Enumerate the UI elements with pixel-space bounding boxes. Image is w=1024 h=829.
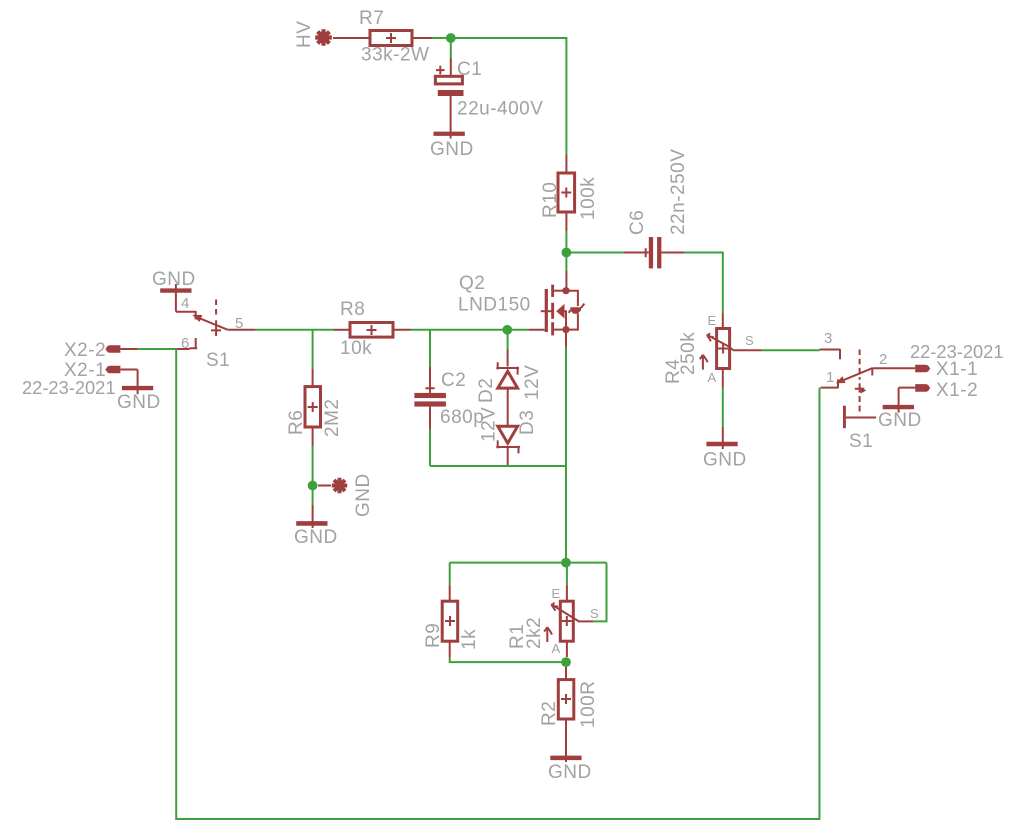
svg-text:S1: S1 [206, 350, 230, 371]
connector X1-1 [915, 359, 978, 380]
wire S1 to R8 [256, 329, 334, 331]
wire R10 to node [565, 212, 567, 231]
ground GND (R2) [548, 719, 592, 783]
svg-text:R8: R8 [340, 299, 365, 320]
ground GND (R4) [703, 427, 747, 471]
wire to R10 [565, 155, 567, 173]
junction dot [446, 33, 456, 43]
diode D3 [479, 407, 539, 454]
svg-text:22n-250V: 22n-250V [668, 149, 689, 235]
resistor R2 [539, 680, 599, 728]
wire C6 to R4 [661, 252, 684, 254]
svg-text:GND: GND [430, 139, 474, 160]
resistor R10 [540, 173, 599, 220]
svg-text:2k2: 2k2 [524, 617, 545, 649]
wire loop top [450, 562, 607, 564]
wire R4 S to S1 pin3 [733, 349, 761, 351]
connector X2-2 [64, 340, 138, 361]
supply GND star [318, 473, 374, 517]
wire R8 left pin [334, 329, 350, 331]
wire drain node down to Q2 [565, 253, 567, 272]
svg-text:1k: 1k [459, 629, 480, 650]
svg-text:HV: HV [294, 21, 315, 48]
switch S1 (left) [176, 295, 256, 371]
svg-text:22-23-2021: 22-23-2021 [910, 341, 1004, 362]
capacitor C2 [414, 370, 484, 428]
svg-text:22u-400V: 22u-400V [457, 99, 543, 120]
wire X2-2 to S1 [138, 348, 177, 350]
svg-text:R2: R2 [539, 701, 560, 726]
svg-text:33k-2W: 33k-2W [361, 45, 429, 66]
ground GND (C1) [430, 132, 474, 160]
wire loop left to R9 [449, 563, 451, 586]
junction dot R1/R9/R2 [561, 657, 571, 667]
wire left rail [176, 349, 819, 819]
svg-text:250k: 250k [678, 332, 699, 375]
junction dot R6/star [308, 481, 318, 491]
svg-text:X1-1: X1-1 [936, 359, 978, 380]
svg-text:2M2: 2M2 [322, 399, 343, 437]
ground GND (R6) [294, 505, 338, 548]
svg-text:22-23-2021: 22-23-2021 [22, 377, 116, 398]
wire zener/C2 rail [430, 465, 566, 467]
wire loop right (wiper S) [593, 563, 607, 622]
svg-text:100k: 100k [578, 177, 599, 220]
svg-text:12V: 12V [479, 407, 500, 442]
svg-text:GND: GND [152, 269, 196, 290]
capacitor C1 [435, 59, 543, 139]
svg-text:2: 2 [879, 351, 887, 368]
wire D3 to rail [507, 447, 509, 466]
wire source line down [565, 466, 567, 563]
junction dot gate/D2 [502, 325, 512, 335]
wire to R4 E [722, 313, 724, 329]
ground GND (left S1 pin4) [152, 269, 196, 312]
diode D2 [476, 362, 543, 403]
svg-text:10k: 10k [340, 338, 372, 359]
wire node to R2 [565, 667, 567, 680]
svg-text:A: A [708, 370, 717, 385]
wire node to C6 [566, 252, 624, 254]
svg-text:S: S [745, 333, 754, 348]
svg-text:E: E [552, 586, 561, 601]
ground GND (S1 frame, rotated) [843, 406, 876, 429]
svg-text:S: S [590, 606, 599, 621]
gate wire from R8 [528, 329, 544, 331]
svg-text:GND: GND [548, 762, 592, 783]
svg-text:12V: 12V [522, 365, 543, 400]
svg-text:X2-2: X2-2 [64, 340, 106, 361]
wire C2 branch [429, 330, 431, 367]
wire R7 to node [412, 37, 432, 39]
wire node down to C1 [450, 38, 452, 58]
wire R6 to GND node [312, 427, 314, 446]
transistor Q2 [458, 273, 584, 335]
svg-text:A: A [552, 641, 561, 656]
ground GND (X1-2) [878, 388, 922, 431]
connector X2-1 [64, 360, 138, 381]
svg-text:GND: GND [117, 392, 161, 413]
potentiometer R1 [507, 586, 599, 656]
wire HV to R7 [333, 37, 370, 39]
wire D2 to D3 [507, 390, 509, 427]
wire node to R10 corner [432, 38, 566, 155]
svg-text:3: 3 [824, 330, 832, 347]
capacitor C6 [627, 149, 689, 269]
svg-text:R7: R7 [359, 8, 384, 29]
wire C2 to rail [429, 407, 431, 429]
svg-text:GND: GND [878, 410, 922, 431]
svg-text:R6: R6 [286, 410, 307, 435]
svg-text:4: 4 [181, 295, 189, 312]
svg-text:Q2: Q2 [459, 273, 485, 294]
svg-text:R10: R10 [540, 182, 561, 218]
svg-text:X1-2: X1-2 [936, 380, 978, 401]
svg-text:1: 1 [826, 369, 834, 386]
connector X1-2 [899, 380, 979, 401]
wire R6 branch [312, 330, 314, 369]
wire R1 A to node [566, 641, 568, 657]
svg-text:C2: C2 [441, 370, 466, 391]
junction dot [562, 248, 572, 258]
svg-text:D2: D2 [476, 378, 497, 403]
wire E to R1 [566, 567, 568, 585]
svg-text:GND: GND [703, 450, 747, 471]
wire R8 to gate [393, 329, 411, 331]
resistor R8 [340, 299, 393, 359]
resistor R6 [286, 387, 343, 437]
svg-text:GND: GND [353, 473, 374, 517]
svg-text:R9: R9 [423, 623, 444, 648]
wire Q2 source down [565, 330, 567, 347]
svg-text:E: E [708, 313, 717, 328]
junction dot loop top [561, 558, 571, 568]
potentiometer R4 [663, 313, 754, 385]
ground GND (X2-1) [117, 370, 161, 414]
svg-text:S1: S1 [849, 431, 873, 452]
svg-text:GND: GND [294, 527, 338, 548]
wire D2 branch [507, 330, 509, 350]
resistor R7 [359, 8, 429, 66]
wire R4 A to GND [722, 369, 724, 388]
svg-text:D3: D3 [517, 410, 538, 435]
switch S1 (right) [820, 330, 916, 452]
svg-text:LND150: LND150 [458, 295, 531, 316]
wire R9 bottom [449, 641, 451, 657]
svg-text:100R: 100R [578, 681, 599, 728]
svg-text:C6: C6 [627, 210, 648, 235]
resistor R9 [423, 601, 480, 650]
supply HV [294, 21, 332, 48]
